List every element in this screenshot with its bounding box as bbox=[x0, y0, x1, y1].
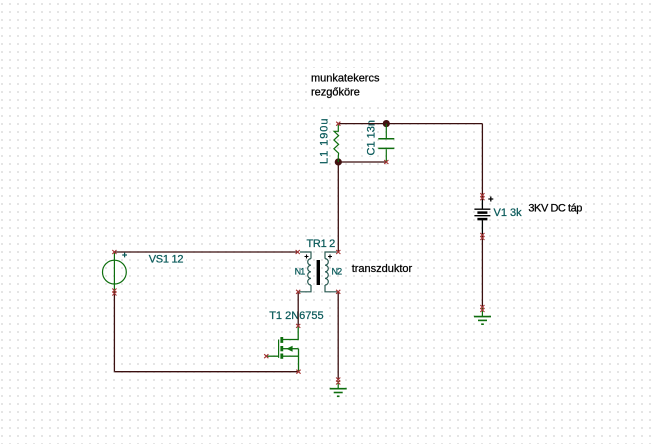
ground below battery V1 bbox=[474, 308, 491, 324]
svg-text:L1 190u: L1 190u bbox=[318, 118, 330, 164]
pin x-mark T1 gate bbox=[264, 354, 268, 358]
pin x-mark TR1 right bottom bbox=[336, 290, 340, 294]
inductor L1 190u bbox=[334, 124, 339, 162]
svg-text:N2: N2 bbox=[332, 267, 343, 277]
label T1 2N6755 bbox=[268, 307, 326, 322]
transistor T1 (NMOS) bbox=[266, 326, 298, 372]
wire right vertical drop to battery V1 bbox=[481, 124, 483, 196]
TR1 right winding polarity plus bbox=[328, 255, 332, 259]
wire battery V1 bottom down to ground bbox=[481, 236, 483, 308]
transformer TR1 bbox=[299, 252, 337, 292]
svg-text:rezgőköre: rezgőköre bbox=[311, 87, 360, 99]
capacitor C1 13n bbox=[378, 124, 394, 162]
wire LC tank bottom rail bbox=[338, 161, 386, 163]
pin x-mark TR1 left top bbox=[296, 250, 300, 254]
pin x-mark T1 source at bottom rail bbox=[296, 370, 300, 374]
svg-text:3KV DC táp: 3KV DC táp bbox=[528, 202, 582, 214]
V1 plus polarity mark bbox=[488, 197, 493, 202]
svg-text:N1: N1 bbox=[295, 267, 306, 277]
pin x-mark T1 drain bbox=[296, 324, 300, 328]
svg-text:V1 3k: V1 3k bbox=[494, 207, 523, 219]
pin x-mark V1 top (doubled) bbox=[480, 193, 484, 200]
svg-text:VS1 12: VS1 12 bbox=[149, 253, 184, 265]
battery V1 bbox=[474, 196, 490, 235]
pin x-mark V1 bottom (doubled) bbox=[480, 233, 484, 240]
label VS1 12 bbox=[147, 251, 186, 265]
pin x-mark TR1 left bottom bbox=[296, 290, 300, 294]
svg-text:munkatekercs: munkatekercs bbox=[311, 73, 380, 85]
pin x-mark L1 top bbox=[336, 122, 340, 126]
wire from LC tank down to TR1 right top pin bbox=[337, 162, 339, 252]
T1 arrow bbox=[286, 346, 292, 352]
wire TR1 left bottom pin to T1 drain bbox=[297, 292, 299, 326]
junction dot at L1 bottom node bbox=[335, 158, 342, 165]
pin x-mark VS1 top bbox=[112, 250, 116, 254]
svg-text:TR1 2: TR1 2 bbox=[307, 238, 336, 250]
note text 3KV DC tap bbox=[526, 200, 585, 215]
transformer TR1 core bbox=[317, 260, 320, 285]
pin x-mark ground below battery (doubled) bbox=[480, 305, 484, 312]
TR1 left winding polarity plus bbox=[305, 255, 309, 259]
note text munkatekercs rezgokore bbox=[307, 68, 385, 101]
pin x-mark TR1 right top bbox=[336, 250, 340, 254]
wire bottom rail from VS1 to T1 source bbox=[114, 371, 298, 373]
label L1 190u bbox=[317, 115, 331, 165]
svg-text:C1 13n: C1 13n bbox=[365, 120, 377, 155]
label V1 3k bbox=[492, 205, 523, 219]
pin x-mark ground below TR1 (doubled) bbox=[336, 378, 340, 385]
pin x-mark C1 bottom bbox=[384, 160, 388, 164]
label C1 13n bbox=[364, 119, 378, 156]
svg-text:transzduktor: transzduktor bbox=[352, 263, 413, 275]
VS1 plus polarity mark bbox=[122, 253, 127, 258]
voltage source VS1 bbox=[103, 252, 127, 292]
note text transzduktor bbox=[349, 261, 415, 275]
label TR1 2 bbox=[306, 237, 336, 250]
ground below TR1 right winding bbox=[330, 381, 347, 396]
wire from VS1 top to TR1 left top pin bbox=[114, 251, 297, 253]
svg-text:T1 2N6755: T1 2N6755 bbox=[269, 310, 323, 322]
pin x-mark VS1 bottom (doubled) bbox=[112, 289, 116, 296]
wire VS1 bottom vertical drop bbox=[113, 292, 115, 372]
junction dot at C1 top node bbox=[383, 120, 390, 127]
wire TR1 right bottom pin down to ground bbox=[337, 292, 339, 380]
wire top rail from L1 top to battery drop bbox=[338, 123, 482, 125]
